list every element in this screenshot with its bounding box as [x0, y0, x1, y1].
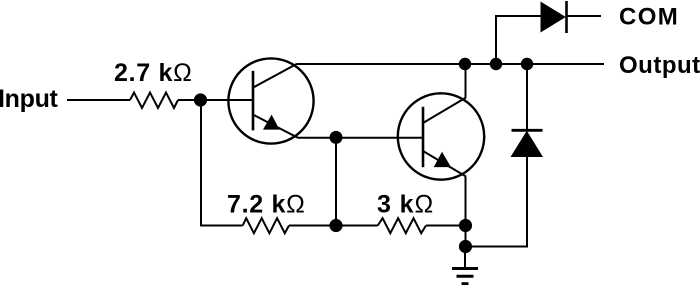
wire left vertical drop [201, 100, 243, 226]
transistor Q2 collector line [423, 98, 466, 124]
ground bar 1 [452, 267, 478, 270]
node input dot [194, 93, 207, 106]
node B dot [329, 219, 342, 232]
ground bar 2 [457, 275, 474, 278]
wire Q2 emitter column [465, 177, 467, 247]
transistor Q2 emitter arrow [434, 152, 451, 167]
wire Q2 collector riser [465, 64, 467, 98]
wire Q1 emitter to Q2 base [298, 137, 423, 139]
resistor R3 3 kOhm [378, 218, 426, 233]
wire R2 to node B [289, 225, 378, 227]
svg-text:3 kΩ: 3 kΩ [377, 190, 434, 218]
wire COM riser [496, 16, 541, 64]
svg-text:2.7 kΩ: 2.7 kΩ [114, 59, 193, 87]
transistor Q1 base bar [252, 71, 255, 131]
svg-text:Input: Input [0, 85, 59, 113]
node rail dot 3 [521, 58, 533, 70]
wire input lead [67, 99, 130, 101]
wire clamp diode branch top [526, 64, 528, 131]
wire ground stub [464, 247, 466, 269]
transistor Q2 circle [398, 93, 484, 179]
wire output rail [297, 63, 604, 65]
resistor R1 2.7 kOhm [130, 93, 178, 109]
node rail dot 2 [490, 58, 502, 70]
ground bar 3 [462, 282, 469, 285]
diode D1 triangle [541, 2, 566, 33]
diode D2 triangle [511, 131, 544, 157]
transistor Q1 circle [228, 58, 313, 143]
wire node A vertical [335, 138, 337, 226]
node A dot [330, 131, 343, 144]
diode D2 cathode bar [512, 129, 543, 132]
wire clamp diode branch bottom [466, 156, 528, 247]
diode D1 cathode bar [565, 1, 568, 33]
transistor Q2 base bar [422, 107, 425, 167]
transistor Q1 collector line [253, 64, 297, 88]
svg-text:COM: COM [619, 4, 679, 31]
transistor Q1 emitter arrow [263, 115, 280, 130]
node emitter rail dot [459, 219, 472, 232]
wire R3 to emitter column [426, 225, 465, 227]
svg-text:Output: Output [619, 52, 700, 79]
wire R1 to T1 base [178, 99, 253, 101]
svg-text:7.2 kΩ: 7.2 kΩ [227, 190, 306, 218]
node rail dot 1 [459, 58, 471, 70]
resistor R2 7.2 kOhm [243, 218, 289, 233]
node ground dot [459, 240, 472, 253]
transistor Q2 emitter line [423, 151, 466, 177]
transistor Q1 emitter line [253, 115, 298, 138]
wire COM lead [567, 15, 602, 17]
